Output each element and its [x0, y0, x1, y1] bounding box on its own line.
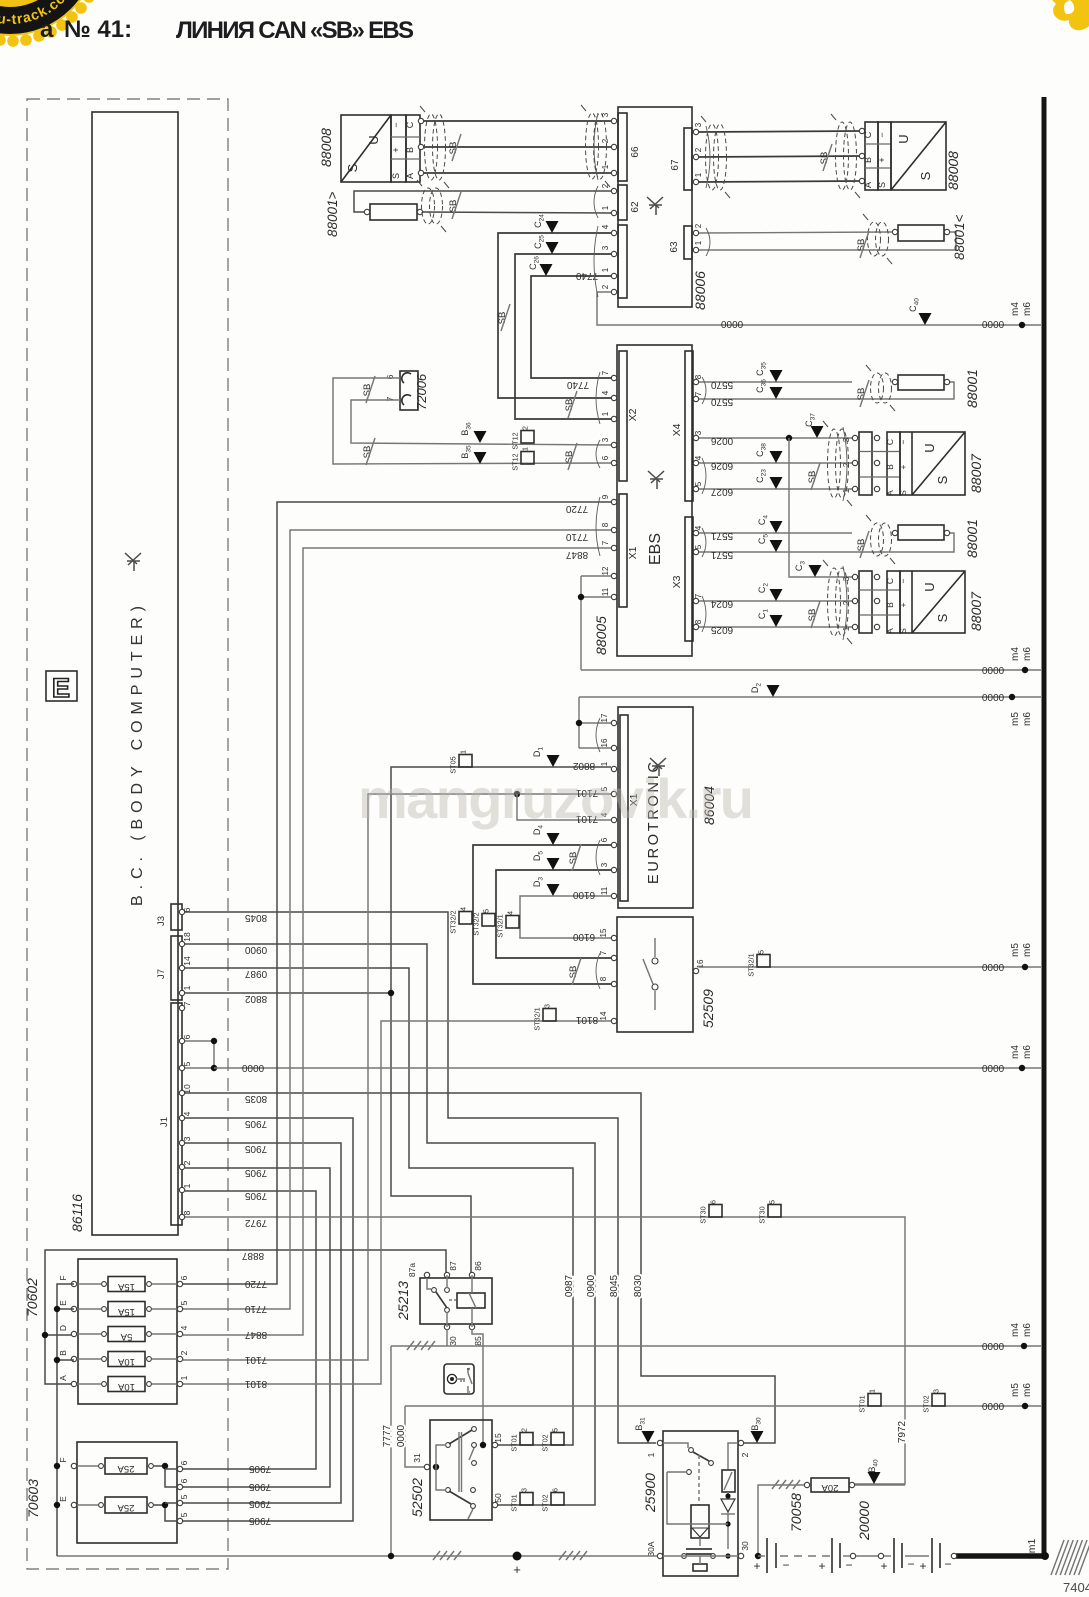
svg-text:5571: 5571: [710, 549, 733, 560]
pin 25900-1: [657, 1440, 662, 1445]
connector J1: [171, 1003, 182, 1225]
pin J1-3: [179, 1140, 184, 1145]
wire 7905 J1-4 to fuse 70603: [183, 1118, 353, 1521]
bus bottom wire to battery: [956, 1553, 1046, 1559]
strip X4: [685, 351, 693, 501]
svg-text:16: 16: [600, 738, 609, 747]
svg-text:0000: 0000: [981, 1340, 1004, 1351]
strip 66: [618, 113, 627, 181]
svg-text:52509: 52509: [700, 989, 716, 1028]
svg-text:0987: 0987: [244, 968, 267, 979]
svg-text:ST01: ST01: [510, 1494, 519, 1511]
inline connector ST32/1 pin3: [543, 1009, 556, 1022]
svg-text:X2: X2: [627, 408, 639, 421]
svg-text:88008: 88008: [945, 151, 961, 190]
wire 8101 fuse 70602-1 to 52509-14: [183, 1021, 611, 1384]
svg-text:7740: 7740: [566, 379, 589, 390]
svg-text:1: 1: [601, 411, 610, 416]
cable shield at connector 66: [586, 113, 599, 179]
pin EBS X1-9: [611, 499, 616, 504]
pin 25213-87a: [424, 1272, 429, 1277]
svg-text:88007: 88007: [968, 591, 984, 631]
wire C3 to lower sensor: [789, 438, 852, 577]
wire 8847 EBS X1-7 to fuse 70602-4: [183, 548, 611, 1335]
pin 66b-1: [611, 273, 616, 278]
bus junction y1346: [1021, 1343, 1027, 1349]
wheel sensor 88007: [852, 435, 857, 440]
pin 66-3: [611, 118, 616, 123]
svg-text:25213: 25213: [395, 1281, 411, 1321]
svg-text:7905: 7905: [244, 1167, 267, 1178]
wire 7905 J1-1 to fuse 70603: [183, 1191, 316, 1469]
svg-text:ST02: ST02: [922, 1395, 931, 1412]
pin J1-4: [179, 1115, 184, 1120]
svg-text:20000: 20000: [856, 1501, 872, 1541]
svg-text:11: 11: [600, 886, 609, 895]
svg-text:3: 3: [932, 1389, 941, 1393]
wire EBS X1-12/11 to earth bus m4/m6 y670: [581, 575, 611, 577]
pin 52509-8: [611, 981, 616, 986]
ground symbol 7777: [407, 1341, 414, 1350]
svg-text:B: B: [405, 147, 415, 153]
svg-text:66: 66: [630, 146, 641, 158]
svg-text:15: 15: [599, 928, 608, 937]
svg-text:3: 3: [694, 430, 703, 435]
pin EBS X2-1: [611, 416, 616, 421]
cable shield 88001: [871, 373, 884, 403]
pin 25213-30: [444, 1324, 449, 1329]
pin 70603-F: [71, 1463, 76, 1468]
svg-text:+: +: [880, 1559, 887, 1573]
svg-text:8030: 8030: [633, 1274, 644, 1297]
strip X1 eurotronic: [620, 715, 628, 901]
pin 70602-2: [177, 1356, 182, 1361]
inline connector ST12 pin2: [521, 431, 534, 444]
wire 6027 X4-5: [699, 488, 852, 490]
svg-text:6: 6: [601, 455, 610, 460]
svg-text:1: 1: [601, 205, 610, 210]
svg-text:2: 2: [694, 147, 703, 152]
svg-text:ST32/2: ST32/2: [472, 912, 481, 935]
cable shield at 67: [706, 124, 719, 190]
svg-text:2: 2: [842, 600, 851, 605]
wire EUROTRONIC X1-6 to 52509-8 CAN: [473, 845, 611, 984]
svg-text:S: S: [345, 163, 360, 172]
svg-text:m6: m6: [1022, 1383, 1033, 1397]
svg-text:14: 14: [182, 956, 192, 966]
svg-text:30A: 30A: [646, 1541, 656, 1556]
wire 0000 to 52502-31 and earth bus m5/m6 y1406: [405, 1405, 1041, 1407]
splice C1: [770, 615, 783, 627]
svg-text:5A: 5A: [120, 1331, 132, 1342]
svg-text:10A: 10A: [117, 1381, 135, 1392]
svg-text:C: C: [885, 578, 895, 584]
pin 70602-F: [71, 1281, 76, 1286]
svg-text:87a: 87a: [407, 1263, 417, 1277]
svg-text:m4: m4: [1010, 647, 1021, 661]
pin EUROTRONIC X1-17: [611, 720, 616, 725]
svg-text:E: E: [52, 673, 70, 703]
bus junction y325: [1019, 322, 1025, 328]
strip 62: [618, 185, 627, 220]
pin EBS X4-8: [693, 379, 698, 384]
pin 70603-E: [71, 1502, 76, 1507]
svg-text:0000: 0000: [981, 1400, 1004, 1411]
svg-text:70058: 70058: [788, 1493, 804, 1532]
svg-text:8: 8: [599, 976, 608, 981]
pin J7-18: [179, 941, 184, 946]
svg-text:S: S: [935, 475, 950, 484]
svg-text:0987: 0987: [564, 1274, 575, 1297]
splice C3: [809, 565, 822, 577]
pin J1-10: [179, 1090, 184, 1095]
wire D2 net to earth bus m5/m6 y697: [579, 696, 1041, 698]
svg-text:m4: m4: [1010, 1045, 1021, 1059]
pin EBS X2-6: [611, 460, 616, 465]
junction 8802: [388, 990, 394, 996]
svg-text:E: E: [58, 1496, 68, 1502]
inline connector ST02 pin6: [551, 1493, 564, 1506]
svg-text:6: 6: [182, 1034, 192, 1039]
svg-text:+: +: [753, 1559, 760, 1573]
svg-text:S: S: [391, 173, 401, 179]
pin 52502-50: [492, 1502, 497, 1507]
relay internals: [427, 1278, 431, 1289]
splice C40: [919, 313, 932, 325]
pin J7-14: [179, 965, 184, 970]
pin 63-2: [693, 230, 698, 235]
splice D1: [547, 755, 560, 767]
svg-text:7905: 7905: [244, 1190, 267, 1201]
svg-text:+: +: [877, 157, 887, 162]
pin 70603-5b: [177, 1518, 182, 1523]
splice C5: [770, 540, 783, 552]
svg-text:50: 50: [493, 1493, 503, 1503]
inline connector ST30 pin6 on 7972: [709, 1205, 722, 1218]
svg-text:5: 5: [182, 1061, 192, 1066]
strip 66b: [618, 225, 627, 298]
svg-text:2: 2: [740, 1452, 750, 1457]
bus junction y697: [1009, 694, 1015, 700]
svg-text:7905: 7905: [244, 1143, 267, 1154]
strip X1: [619, 494, 627, 607]
pin 70602-D: [71, 1331, 76, 1336]
ignition key icon: [444, 1364, 474, 1394]
diagnostic socket 72006: [400, 371, 418, 410]
svg-text:0000: 0000: [981, 691, 1004, 702]
wire 7720 EBS X1-9 to fuse 70602-6: [183, 502, 611, 1284]
fuse 70058 20A: [811, 1478, 849, 1492]
svg-text:88006: 88006: [692, 271, 708, 310]
pin EBS X3-8: [693, 624, 698, 629]
svg-text:4: 4: [694, 525, 703, 530]
connector J3: [171, 904, 182, 930]
pin EBS X3-7: [693, 598, 698, 603]
svg-text:88001: 88001: [964, 519, 980, 558]
svg-text:D: D: [58, 1325, 68, 1331]
svg-text:−: −: [898, 578, 908, 583]
pin 25213-86: [469, 1272, 474, 1277]
pin EBS X1-8: [611, 527, 616, 532]
svg-text:0900: 0900: [586, 1274, 597, 1297]
splice B40: [868, 1472, 881, 1484]
svg-text:ST32/2: ST32/2: [449, 910, 458, 933]
svg-text:m5: m5: [1010, 1383, 1021, 1397]
svg-text:4: 4: [179, 1325, 189, 1330]
svg-text:A: A: [58, 1375, 68, 1381]
pin 70603-6b: [177, 1484, 182, 1489]
pin EBS X4-5: [693, 486, 698, 491]
svg-text:7: 7: [601, 370, 610, 375]
svg-text:8887: 8887: [241, 1250, 264, 1261]
fuse 25A row F: [105, 1458, 147, 1474]
svg-text:6: 6: [179, 1460, 189, 1465]
svg-text:4: 4: [459, 907, 468, 911]
pin 52509-15: [611, 935, 616, 940]
svg-text:3: 3: [601, 112, 610, 117]
splice B35: [474, 452, 487, 464]
svg-text:52502: 52502: [409, 1478, 425, 1517]
svg-text:10A: 10A: [117, 1356, 135, 1367]
svg-text:1: 1: [521, 447, 530, 451]
resistor 88001 right: [898, 225, 944, 241]
EUROTRONIC electronic unit 86004: [618, 707, 693, 908]
svg-text:B: B: [58, 1350, 68, 1356]
svg-text:mangruzovik.ru: mangruzovik.ru: [358, 767, 754, 830]
svg-text:2: 2: [842, 462, 851, 467]
svg-text:−: −: [391, 122, 401, 127]
pin EBS X4-7: [693, 396, 698, 401]
wire C24 net connector 66b-4 to EBS X2-4: [498, 233, 611, 398]
bus junction y670: [1022, 667, 1028, 673]
pin 62-1: [611, 210, 616, 215]
cable shield 88008 right: [836, 122, 849, 190]
svg-text:6: 6: [551, 1488, 560, 1492]
svg-text:7905: 7905: [244, 1118, 267, 1129]
splice C37: [811, 426, 824, 438]
svg-text:7404.: 7404.: [1063, 1580, 1089, 1595]
svg-text:−: −: [944, 1557, 951, 1571]
svg-text:15A: 15A: [117, 1306, 135, 1317]
svg-text:J3: J3: [156, 916, 167, 926]
pin J1-8: [179, 1214, 184, 1219]
svg-text:X1: X1: [627, 546, 639, 559]
svg-text:ST32/1: ST32/1: [496, 914, 505, 937]
splice D2: [767, 685, 780, 697]
svg-text:ST01: ST01: [510, 1434, 519, 1451]
cable shield 88008 left: [425, 114, 438, 180]
svg-text:5: 5: [179, 1300, 189, 1305]
wire 7740 connector 66b-1 to EBS X2-7: [531, 276, 611, 378]
splice C36: [770, 387, 783, 399]
pin 66b-4: [611, 230, 616, 235]
splice C23: [770, 477, 783, 489]
svg-text:7720: 7720: [244, 1278, 267, 1289]
resistor 88001 left: [370, 204, 417, 220]
svg-text:85: 85: [473, 1336, 483, 1346]
wire 0000 from J1-5/6 to earth bus m4/m6: [185, 1040, 214, 1042]
inline connector ST02 pin5: [551, 1433, 564, 1446]
pin 66b-3: [611, 251, 616, 256]
pin 66b-2: [611, 289, 616, 294]
svg-text:S: S: [898, 490, 908, 496]
svg-text:2: 2: [601, 284, 610, 289]
pin EUROTRONIC X1-4: [611, 817, 616, 822]
fuse 15A row E: [108, 1302, 145, 1317]
inline connector ST12 pin1: [521, 452, 534, 465]
strip X2: [619, 351, 627, 481]
pin 25900-30A: [657, 1553, 662, 1558]
svg-text:8045: 8045: [244, 912, 267, 923]
wires connector 67 to sensor 88008 right: [699, 131, 860, 132]
svg-text:+: +: [898, 602, 908, 607]
svg-text:18: 18: [182, 932, 192, 942]
cable shield 88001 lower: [871, 523, 884, 556]
svg-text:ST32/1: ST32/1: [747, 953, 756, 976]
svg-text:2: 2: [521, 426, 530, 430]
svg-text:m6: m6: [1022, 1045, 1033, 1059]
svg-text:6: 6: [709, 1200, 718, 1204]
svg-text:F: F: [58, 1457, 68, 1462]
svg-text:№ 41:: № 41:: [64, 16, 132, 43]
svg-text:25A: 25A: [117, 1502, 135, 1513]
pin 67-3: [693, 129, 698, 134]
wire 6025 X3-8: [699, 626, 852, 628]
svg-text:m5: m5: [1010, 712, 1021, 726]
pin 70602-6: [177, 1281, 182, 1286]
svg-text:31: 31: [412, 1453, 422, 1463]
svg-text:67: 67: [670, 159, 681, 171]
splice C24: [546, 221, 559, 233]
pin 52509-7: [611, 955, 616, 960]
bus junction m4/m6 y1068: [1019, 1065, 1025, 1071]
svg-text:8: 8: [694, 619, 703, 624]
svg-text:0000: 0000: [720, 318, 743, 329]
pin EBS X1-7: [611, 545, 616, 550]
wire 7710 EBS X1-8 to fuse 70602-5: [183, 530, 611, 1309]
svg-text:5571: 5571: [710, 530, 733, 541]
wire 8802 J7-1 with riser to EUROTRONIC and drop to relay 25213 pin 86: [185, 992, 391, 994]
wire 7905 J1-2 to fuse 70603: [183, 1168, 330, 1487]
splice B36: [474, 431, 487, 443]
wire 5570 X4-8: [699, 381, 852, 383]
pin 62-2: [611, 188, 616, 193]
svg-text:6: 6: [600, 837, 609, 842]
svg-text:S: S: [918, 171, 933, 180]
svg-text:70602: 70602: [24, 1278, 40, 1317]
svg-text:1: 1: [600, 761, 609, 766]
wire 72006-7 to EBS X2-3: [351, 400, 611, 445]
svg-text:A: A: [885, 628, 895, 634]
svg-text:U: U: [366, 135, 381, 144]
svg-text:m6: m6: [1022, 943, 1033, 957]
svg-text:EBS: EBS: [647, 533, 664, 565]
svg-text:5: 5: [179, 1494, 189, 1499]
svg-text:72006: 72006: [414, 373, 429, 410]
svg-text:7972: 7972: [897, 1420, 908, 1443]
junction 7777 bottom: [388, 1553, 394, 1559]
svg-text:87: 87: [448, 1261, 458, 1271]
ground wire bottom from fuse boxes to 25900-30A: [57, 1555, 657, 1557]
svg-text:4: 4: [182, 1111, 192, 1116]
cable shield 88007: [828, 429, 841, 498]
pin EBS X3-4: [693, 530, 698, 535]
svg-text:8847: 8847: [244, 1329, 267, 1340]
pin 67-2: [693, 154, 698, 159]
wire 8035/8030 J1-10 to relay 25900 pin 2 via B30: [185, 1093, 775, 1443]
svg-text:C: C: [405, 121, 415, 128]
svg-text:7905: 7905: [248, 1463, 271, 1474]
svg-text:ЛИНИЯ CAN «SB» EBS: ЛИНИЯ CAN «SB» EBS: [176, 17, 414, 44]
pin EUROTRONIC X1-11: [611, 893, 616, 898]
battery positive junction: [513, 1552, 522, 1561]
splice C26: [540, 264, 553, 276]
wire 72006-6 to EBS X2-6: [333, 378, 611, 464]
pin J1-5: [179, 1065, 184, 1070]
svg-text:88001<: 88001<: [952, 214, 967, 260]
wire relay 85 to 52502-15 junction: [472, 1329, 483, 1445]
pin EUROTRONIC X1-5: [611, 791, 616, 796]
svg-text:5570: 5570: [710, 396, 733, 407]
cable shield 88001 left: [422, 188, 435, 224]
pin 70603-5a: [177, 1500, 182, 1505]
svg-text:5570: 5570: [710, 379, 733, 390]
svg-text:17: 17: [600, 713, 609, 722]
svg-text:U: U: [922, 582, 937, 591]
inline connector ST32/2 pin5: [482, 914, 495, 927]
svg-text:7720: 7720: [565, 503, 588, 514]
logo fragment top-right corner: [1052, 0, 1089, 30]
svg-text:2: 2: [601, 138, 610, 143]
svg-text:ST30: ST30: [699, 1206, 708, 1223]
EBS electronic unit: [617, 345, 692, 656]
speed sensor 88008 left: [341, 115, 391, 182]
svg-text:8: 8: [182, 1210, 192, 1215]
svg-text:30: 30: [448, 1336, 458, 1346]
pin 70602-E: [71, 1306, 76, 1311]
svg-text:5: 5: [482, 909, 491, 913]
svg-text:1: 1: [182, 985, 192, 990]
svg-text:+: +: [513, 1562, 521, 1577]
fuse 5A row D: [108, 1327, 145, 1342]
relay 25213: [420, 1278, 492, 1324]
svg-text:ST02: ST02: [541, 1494, 550, 1511]
svg-text:1: 1: [601, 267, 610, 272]
svg-text:−: −: [877, 132, 887, 137]
svg-text:30: 30: [740, 1541, 750, 1551]
pin 67-1: [693, 179, 698, 184]
connector block 88006: [618, 107, 692, 307]
resistor 88001 lower-mid: [898, 525, 944, 540]
wire 7777 to main ground: [390, 1346, 392, 1556]
pin EBS X1-12: [611, 573, 616, 578]
svg-text:88001>: 88001>: [325, 191, 340, 237]
svg-text:2: 2: [182, 1160, 192, 1165]
svg-text:5: 5: [179, 1512, 189, 1517]
svg-text:E: E: [58, 1300, 68, 1306]
svg-text:1: 1: [694, 240, 703, 245]
switch 52502 internals: [435, 1466, 437, 1468]
svg-text:63: 63: [669, 241, 680, 253]
svg-text:0000: 0000: [396, 1424, 407, 1447]
svg-text:7: 7: [694, 593, 703, 598]
svg-text:ST32/1: ST32/1: [533, 1007, 542, 1030]
pin EBS X2-3: [611, 442, 616, 447]
inline connector ST02 pin3: [932, 1394, 945, 1407]
pin EUROTRONIC X1-3: [611, 867, 616, 872]
svg-text:+: +: [919, 1559, 926, 1573]
svg-text:6100: 6100: [572, 931, 595, 942]
